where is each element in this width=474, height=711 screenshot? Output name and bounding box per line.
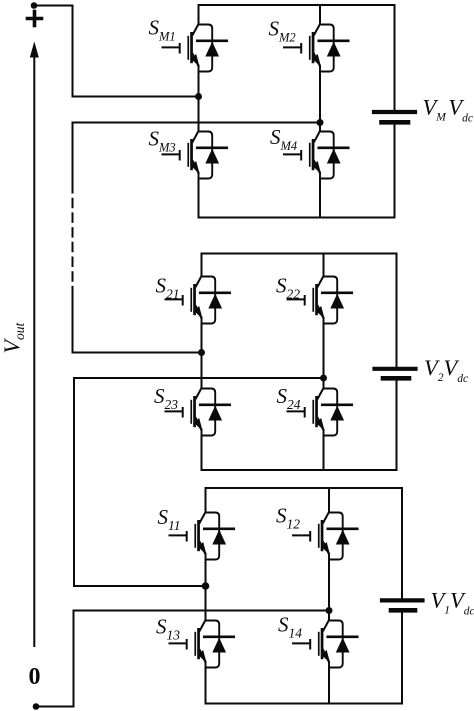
transistor SM1 [163,24,227,72]
svg-text:SM4: SM4 [270,125,297,153]
wire cell M right leg [319,5,321,218]
svg-text:SM3: SM3 [149,127,176,155]
wire cell M top rail [199,4,395,6]
transistor S12 [293,512,357,560]
svg-text:S13: S13 [156,615,180,643]
svg-text:SM2: SM2 [269,17,296,45]
svg-text:S14: S14 [278,613,302,641]
junction cell M left midpoint [195,93,202,100]
svg-text:V2Vdc: V2Vdc [424,355,468,385]
svg-text:S11: S11 [158,505,181,533]
wire plus terminal to cell M left midpoint [34,6,199,97]
svg-text:VMVdc: VMVdc [423,95,473,125]
wire cell 2 right midpoint to cell 1 left midpoint [74,378,324,586]
svg-text:S24: S24 [277,384,301,412]
transistor S21 [166,276,230,324]
transistor S24 [288,388,352,436]
wire 0 terminal to cell 1 right midpoint [36,611,329,707]
battery V2 [375,254,416,471]
node plus output terminal dot [31,2,38,9]
wire cell M bottom rail [199,217,395,219]
wire cell 1 top rail [206,487,403,489]
junction cell 1 right midpoint [326,607,333,614]
wire cell M left leg [198,5,200,218]
battery VM [374,5,415,218]
node 0 output terminal dot [33,703,40,710]
transistor S11 [170,512,234,560]
transistor SM3 [163,131,227,179]
svg-text:S22: S22 [276,274,300,302]
svg-text:S23: S23 [154,384,178,412]
battery V1 [382,488,423,704]
svg-text:S21: S21 [156,274,180,302]
transistor S23 [166,388,230,436]
wire cell 1 right leg [328,488,330,704]
wire cell 2 right leg [323,254,325,471]
transistor S14 [293,620,357,668]
wire cell M right midpoint to cell 2 left midpoint dashed omitted cells [73,123,321,353]
svg-text:0: 0 [29,664,41,690]
wire cell 1 left leg [205,488,207,704]
svg-text:Vout: Vout [0,322,27,354]
svg-text:V1Vdc: V1Vdc [431,588,474,618]
label + [28,12,42,26]
svg-text:S12: S12 [276,504,300,532]
transistor SM4 [284,131,348,179]
transistor S22 [288,276,352,324]
wire cell 2 bottom rail [202,469,397,471]
wire cell 1 bottom rail [206,703,403,705]
junction cell 1 left midpoint [202,582,210,590]
junction cell 2 left midpoint [198,349,205,356]
wire cell 2 left leg [201,254,203,471]
transistor S13 [170,620,234,668]
junction cell M right midpoint [317,119,324,126]
svg-text:SM1: SM1 [149,16,176,44]
wire cell 2 top rail [202,253,397,255]
transistor SM2 [284,24,348,72]
junction cell 2 right midpoint [320,375,327,382]
Vout arrow [30,42,39,647]
